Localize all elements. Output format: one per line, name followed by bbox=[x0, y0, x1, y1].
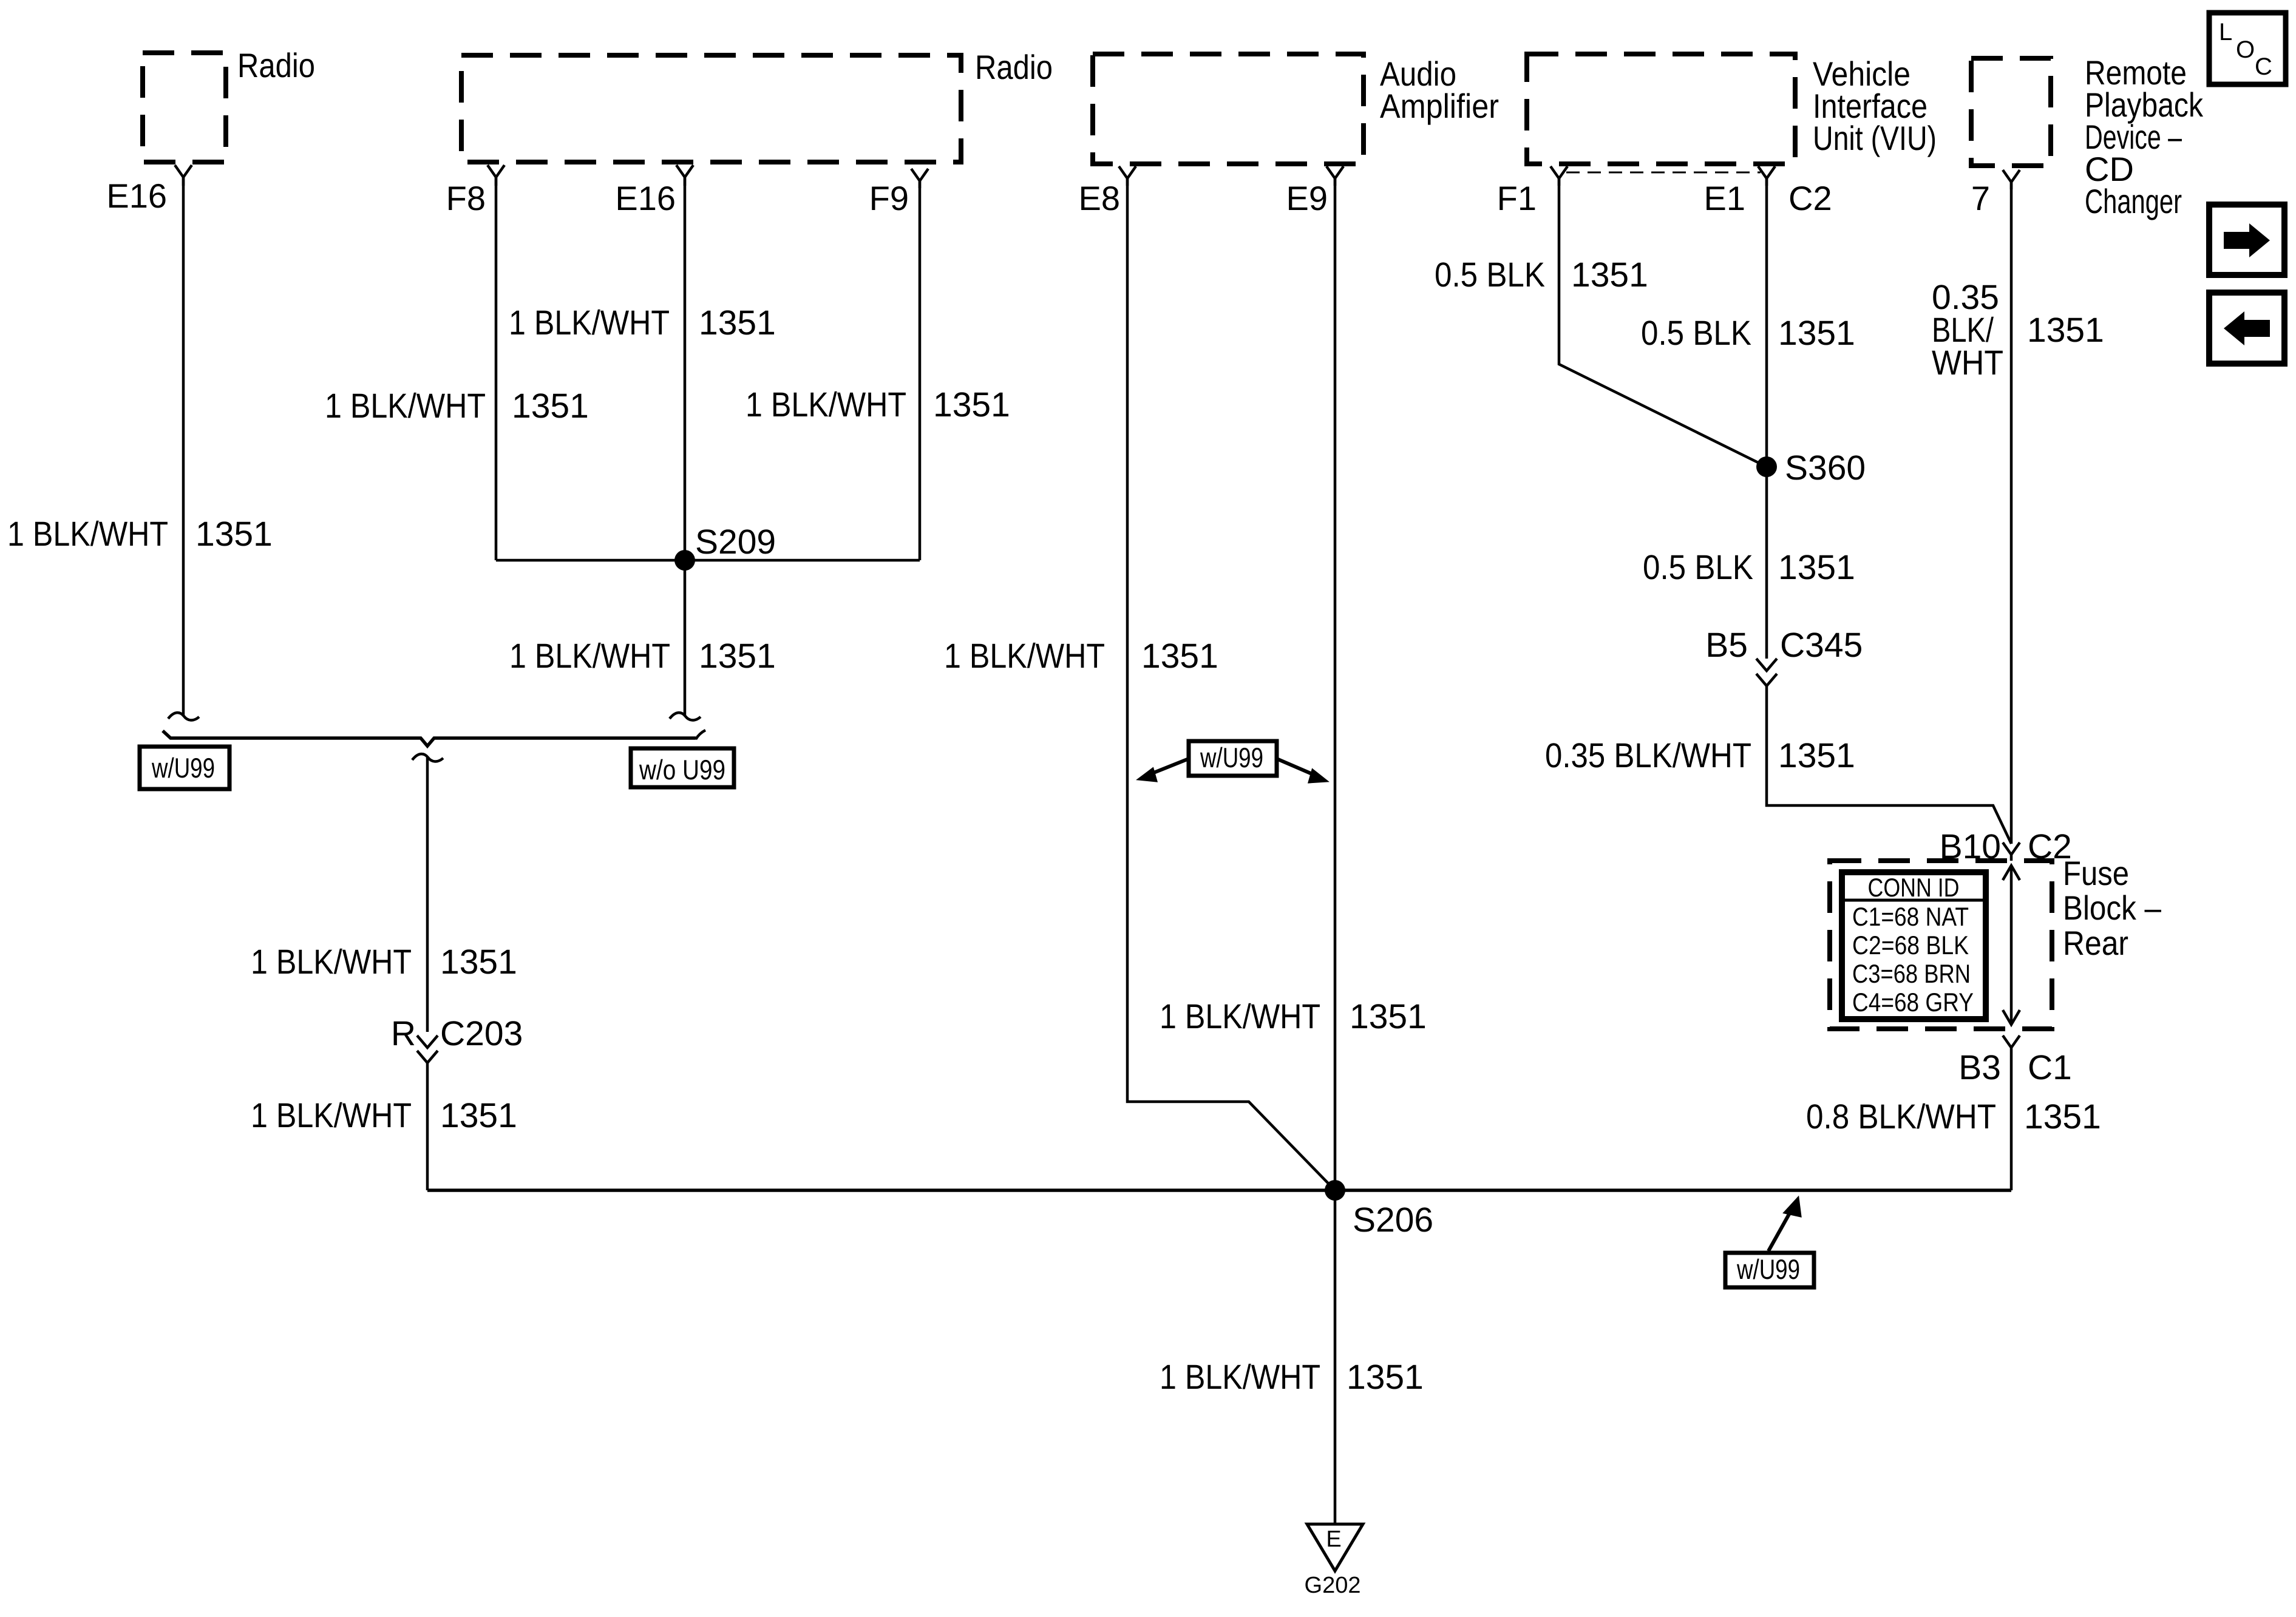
wire from left Radio pin E16 down bbox=[182, 177, 185, 715]
svg-text:WHT: WHT bbox=[1932, 344, 2003, 382]
svg-text:1351: 1351 bbox=[1347, 1358, 1424, 1397]
wire label 1 BLK/WHT 1351 (E9 wire) bbox=[1160, 997, 1427, 1036]
svg-text:E: E bbox=[1326, 1527, 1341, 1552]
wire from Radio pin F8 down to S209 bus bbox=[495, 177, 498, 560]
connector B3 / C1 out of Fuse Block (Y symbol) bbox=[1958, 1036, 2072, 1087]
w/U99 option tag (left) bbox=[140, 747, 229, 789]
svg-text:1351: 1351 bbox=[1141, 637, 1218, 676]
svg-text:w/U99: w/U99 bbox=[1736, 1253, 1800, 1285]
svg-text:0.35 BLK/WHT: 0.35 BLK/WHT bbox=[1545, 736, 1751, 775]
svg-text:C1=68 NAT: C1=68 NAT bbox=[1852, 903, 1969, 932]
svg-text:E8: E8 bbox=[1079, 179, 1121, 217]
svg-text:F9: F9 bbox=[869, 179, 909, 217]
svg-text:1 BLK/WHT: 1 BLK/WHT bbox=[746, 385, 906, 424]
svg-text:1351: 1351 bbox=[195, 515, 273, 554]
wire label 1 BLK/WHT 1351 (below C203) bbox=[251, 1096, 517, 1135]
wire label 1 BLK/WHT 1351 (F8 wire) bbox=[325, 387, 589, 425]
w/U99 option tag with arrow to bottom bus bbox=[1725, 1198, 1814, 1287]
svg-text:S206: S206 bbox=[1353, 1201, 1433, 1239]
wire from VIU pin E1 down through S360 to C345 bbox=[1765, 178, 1768, 659]
svg-text:C203: C203 bbox=[440, 1014, 523, 1053]
splice S206 bbox=[1325, 1180, 1433, 1239]
svg-text:E16: E16 bbox=[615, 179, 676, 217]
wire label 0.5 BLK 1351 (E1 wire) bbox=[1641, 314, 1855, 353]
pin F9 of Radio bbox=[869, 169, 928, 217]
wire from S206 down to ground G202 bbox=[1334, 1190, 1337, 1524]
pin F1 of VIU bbox=[1497, 166, 1567, 217]
component Fuse Block - Rear (dashed box) bbox=[1830, 854, 2162, 1029]
svg-text:E9: E9 bbox=[1286, 179, 1328, 217]
wire label 1 BLK/WHT 1351 (E16 wire above S209) bbox=[509, 303, 776, 342]
svg-text:R: R bbox=[391, 1014, 416, 1053]
svg-text:C3=68 BRN: C3=68 BRN bbox=[1852, 960, 1971, 989]
wire label 1 BLK/WHT 1351 (E8 wire) bbox=[944, 637, 1218, 676]
svg-text:0.5 BLK: 0.5 BLK bbox=[1643, 548, 1753, 587]
component Radio (left, small box) bbox=[143, 46, 315, 162]
wire label 0.5 BLK 1351 (below S360) bbox=[1643, 548, 1855, 587]
svg-text:Unit (VIU): Unit (VIU) bbox=[1813, 119, 1937, 157]
connector B10 / C2 into Fuse Block (Y symbol) bbox=[1940, 827, 2072, 866]
wire from option bus down to C203 bbox=[426, 758, 429, 1032]
LOC legend box bbox=[2209, 13, 2286, 84]
splice S209 bbox=[674, 523, 776, 571]
svg-text:1351: 1351 bbox=[699, 637, 776, 676]
wire label 1 BLK/WHT 1351 (ground wire) bbox=[1160, 1358, 1424, 1397]
svg-text:0.5 BLK: 0.5 BLK bbox=[1435, 256, 1545, 294]
svg-text:0.5 BLK: 0.5 BLK bbox=[1641, 314, 1751, 353]
svg-text:1351: 1351 bbox=[440, 1096, 517, 1135]
svg-text:1351: 1351 bbox=[440, 943, 517, 981]
svg-text:Rear: Rear bbox=[2063, 924, 2128, 962]
svg-text:B5: B5 bbox=[1705, 626, 1748, 665]
wire label 0.35 BLK/WHT 1351 (below C345) bbox=[1545, 736, 1855, 775]
wire from C345 down then right to fuse block B10 bbox=[1767, 686, 2011, 844]
svg-text:F8: F8 bbox=[446, 179, 486, 217]
pin E16 of left Radio bbox=[106, 165, 192, 215]
pin E1 of VIU (connector C2) bbox=[1704, 166, 1832, 217]
svg-text:1351: 1351 bbox=[1350, 997, 1427, 1036]
wire from B3/C1 down to bottom bus bbox=[2010, 1056, 2013, 1190]
svg-text:L: L bbox=[2219, 19, 2232, 46]
svg-text:Amplifier: Amplifier bbox=[1380, 87, 1499, 125]
pin F8 of Radio bbox=[446, 165, 504, 217]
svg-text:Changer: Changer bbox=[2085, 182, 2182, 220]
svg-text:Radio: Radio bbox=[237, 46, 315, 84]
wire from C203 down to bottom bus bbox=[426, 1063, 429, 1190]
wire from Radio pin E16 down through S209 bbox=[684, 177, 687, 715]
svg-text:1 BLK/WHT: 1 BLK/WHT bbox=[325, 387, 486, 425]
svg-text:C: C bbox=[2255, 53, 2272, 80]
wire from VIU pin F1 down and diagonal to S360 bbox=[1559, 178, 1767, 467]
wire label 1 BLK/WHT 1351 (above C203) bbox=[251, 943, 517, 981]
pin 7 of CD Changer bbox=[1971, 170, 2020, 217]
pin E16 of Radio bbox=[615, 165, 693, 217]
svg-text:1 BLK/WHT: 1 BLK/WHT bbox=[1160, 997, 1320, 1036]
svg-text:S360: S360 bbox=[1785, 449, 1866, 487]
svg-text:1 BLK/WHT: 1 BLK/WHT bbox=[944, 637, 1105, 676]
component Vehicle Interface Unit (VIU) bbox=[1527, 54, 1937, 164]
svg-text:1351: 1351 bbox=[1778, 736, 1855, 775]
splice bus wire F8 to F9 through S209 bbox=[496, 559, 920, 562]
svg-text:O: O bbox=[2236, 36, 2255, 63]
w/U99 option tag between E8 and E9 wires bbox=[1138, 741, 1327, 782]
svg-text:F1: F1 bbox=[1497, 179, 1537, 217]
svg-text:1 BLK/WHT: 1 BLK/WHT bbox=[509, 637, 670, 676]
wire label 0.8 BLK/WHT 1351 bbox=[1806, 1097, 2101, 1136]
splice S360 bbox=[1756, 449, 1866, 487]
svg-text:Radio: Radio bbox=[975, 48, 1053, 86]
wire label 0.35 BLK/WHT 1351 (pin 7 wire, three lines) bbox=[1932, 278, 2104, 382]
svg-text:1351: 1351 bbox=[512, 387, 589, 425]
svg-text:Fuse: Fuse bbox=[2063, 854, 2129, 892]
svg-text:1351: 1351 bbox=[933, 385, 1010, 424]
svg-text:1351: 1351 bbox=[1778, 548, 1855, 587]
legend box with left arrow bbox=[2209, 293, 2284, 364]
harness-break hook at bottom of left E16 wire bbox=[168, 713, 199, 720]
w/o U99 option tag bbox=[631, 748, 734, 787]
svg-text:1351: 1351 bbox=[1571, 256, 1648, 294]
svg-text:C2=68 BLK: C2=68 BLK bbox=[1852, 931, 1969, 960]
bottom bus wire from C203 branch to B3/C1 branch through S206 bbox=[427, 1188, 2011, 1192]
in-line connector C203 pin R (double chevron) bbox=[391, 1014, 523, 1063]
wire label 1 BLK/WHT 1351 (E16 wire below S209) bbox=[509, 637, 776, 676]
wire label 1 BLK/WHT 1351 (left E16 wire) bbox=[7, 515, 273, 554]
svg-text:w/U99: w/U99 bbox=[151, 752, 215, 784]
svg-text:C2: C2 bbox=[1788, 179, 1832, 217]
option bus line joining w/U99 and w/o U99 branches bbox=[163, 731, 696, 746]
harness-break hook at top of C203 branch wire bbox=[412, 754, 443, 761]
component Remote Playback Device - CD Changer bbox=[1971, 53, 2204, 220]
thin dashed harness line below VIU between F1 and E1 bbox=[1566, 172, 1761, 174]
svg-text:1 BLK/WHT: 1 BLK/WHT bbox=[251, 1096, 412, 1135]
svg-text:1 BLK/WHT: 1 BLK/WHT bbox=[251, 943, 412, 981]
in-line connector C345 pin B5 (double chevron) bbox=[1705, 626, 1863, 686]
svg-text:CONN ID: CONN ID bbox=[1868, 873, 1960, 903]
component Audio Amplifier bbox=[1093, 54, 1499, 164]
svg-text:7: 7 bbox=[1971, 179, 1990, 217]
svg-text:1351: 1351 bbox=[2024, 1097, 2101, 1136]
svg-text:1351: 1351 bbox=[1778, 314, 1855, 353]
svg-text:Block –: Block – bbox=[2063, 889, 2162, 927]
svg-text:C4=68 GRY: C4=68 GRY bbox=[1852, 988, 1974, 1017]
svg-text:1351: 1351 bbox=[2027, 311, 2104, 350]
svg-text:w/U99: w/U99 bbox=[1200, 742, 1263, 773]
svg-text:1 BLK/WHT: 1 BLK/WHT bbox=[7, 515, 168, 554]
svg-text:w/o U99: w/o U99 bbox=[639, 754, 725, 785]
wire from Audio Amplifier pin E8 down then right to S206 bbox=[1127, 178, 1335, 1190]
component Radio (wide box) bbox=[461, 48, 1053, 162]
ground G202 (triangle with E) bbox=[1305, 1524, 1363, 1598]
harness-break hook at bottom of middle E16 wire bbox=[670, 713, 701, 720]
pin E9 of Audio Amplifier bbox=[1286, 166, 1344, 217]
svg-text:1 BLK/WHT: 1 BLK/WHT bbox=[1160, 1358, 1320, 1397]
wire from CD Changer pin 7 down to fuse block B10 bbox=[2010, 182, 2013, 844]
CONN ID table inside Fuse Block bbox=[1842, 872, 1986, 1019]
svg-text:E1: E1 bbox=[1704, 179, 1746, 217]
wire from Radio pin F9 down to S209 bus bbox=[919, 181, 922, 560]
wire label 1 BLK/WHT 1351 (F9 wire) bbox=[746, 385, 1010, 424]
internal wire through fuse block (double-ended arrow) bbox=[2003, 866, 2020, 1025]
svg-text:1 BLK/WHT: 1 BLK/WHT bbox=[509, 303, 670, 342]
svg-text:S209: S209 bbox=[695, 523, 776, 561]
svg-text:C345: C345 bbox=[1780, 626, 1863, 665]
svg-text:0.8 BLK/WHT: 0.8 BLK/WHT bbox=[1806, 1097, 1996, 1136]
wire label 0.5 BLK 1351 (F1 wire) bbox=[1435, 256, 1648, 294]
wire from Audio Amplifier pin E9 down to S206 bbox=[1334, 178, 1337, 1190]
pin E8 of Audio Amplifier bbox=[1079, 166, 1136, 217]
svg-text:1351: 1351 bbox=[699, 303, 776, 342]
curl at right end of option bus bbox=[696, 730, 705, 739]
svg-text:C1: C1 bbox=[2028, 1048, 2072, 1087]
svg-text:G202: G202 bbox=[1305, 1573, 1361, 1598]
svg-text:B3: B3 bbox=[1958, 1048, 2001, 1087]
legend box with right arrow bbox=[2209, 205, 2284, 275]
svg-text:E16: E16 bbox=[106, 177, 167, 215]
